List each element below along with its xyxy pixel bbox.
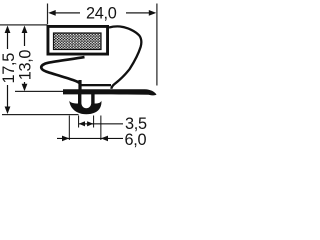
svg-text:6,0: 6,0 xyxy=(125,131,147,149)
svg-text:13,0: 13,0 xyxy=(17,50,35,81)
ledge xyxy=(80,84,111,86)
extension line y=91.5 for 13,0 xyxy=(15,91,64,92)
dim 13,0 up arrow xyxy=(22,26,28,47)
balloon bulb curve xyxy=(109,26,141,88)
svg-text:24,0: 24,0 xyxy=(86,5,117,23)
ext line C x=93.5 xyxy=(93,116,94,128)
magnet pocket box outline xyxy=(47,25,110,56)
dim 24,0 left extension line xyxy=(47,4,48,25)
ext line A x=69.3 xyxy=(69,116,70,141)
dim 3,5 arrows + leader xyxy=(79,121,123,126)
dim 24,0 right extension line xyxy=(156,4,157,86)
dim 24,0 right arrow + line xyxy=(126,10,156,16)
extension line y=114.5 for 17,5 xyxy=(2,114,79,115)
dim 17,5 up arrow xyxy=(5,26,11,50)
dim 6,0 arrows + line xyxy=(57,136,123,142)
dart neck right wall xyxy=(91,94,94,104)
dart anchor foot xyxy=(69,101,101,115)
base bar xyxy=(63,89,157,95)
dim 13,0 down arrow xyxy=(22,82,28,91)
ext line B x=78.5 xyxy=(78,116,79,128)
seal flap (hairpin lip) xyxy=(41,57,84,83)
dim 24,0 left arrow + line xyxy=(48,10,80,16)
dart neck left wall xyxy=(78,94,81,104)
junction post xyxy=(78,80,81,90)
extension line top-left (profile top reference) xyxy=(0,24,47,25)
magnet (crosshatched) xyxy=(54,33,102,50)
dim 17,5 down arrow xyxy=(5,85,11,114)
svg-text:17,5: 17,5 xyxy=(0,53,18,84)
ext line D x=100.8 xyxy=(100,116,101,141)
